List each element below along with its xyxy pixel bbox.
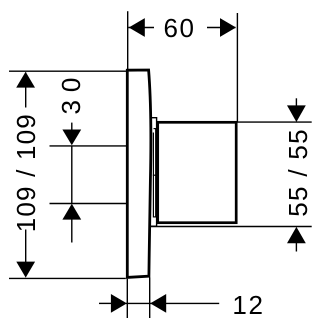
dimension line 60 (top) left segment <box>128 27 154 29</box>
extension line bottom vertical right (12 dim) <box>149 278 151 319</box>
arrow 12 left <box>111 294 127 313</box>
dimension line 12 left segment <box>99 302 112 304</box>
extension line lower (30 dim) <box>50 203 128 205</box>
arrow 55/55 top <box>287 105 306 122</box>
dimension line 55/55 upper stub <box>295 98 297 106</box>
dimension line 30 lower stub <box>71 219 73 243</box>
dimension line 60 (top) right segment <box>207 27 236 29</box>
sleeve mid bridge tick <box>153 174 156 176</box>
arrow 109/109 bottom <box>16 262 35 278</box>
sleeve step front line <box>155 129 157 217</box>
dimension line 30 middle segment <box>71 146 73 204</box>
sleeve outer cylinder <box>150 118 157 227</box>
dimension line 12 middle/right segment <box>126 302 219 304</box>
svg-text:12: 12 <box>232 290 264 320</box>
svg-text:60: 60 <box>163 13 195 43</box>
escutcheon plate (side view) <box>127 70 151 277</box>
extension line top-left (plate top, for 109/109 dim) <box>9 70 127 72</box>
extension line bottom vertical left (12 dim) <box>126 279 128 318</box>
dimension line 109/109 lower segment <box>25 230 27 277</box>
sleeve step lower tick <box>154 216 158 218</box>
arrow 109/109 top <box>16 72 35 88</box>
arrow 55/55 bottom <box>287 227 306 243</box>
arrow 30 lower <box>62 204 81 220</box>
extension line right vertical (60 dim, knob front) <box>236 13 238 122</box>
svg-text:109 / 109: 109 / 109 <box>11 113 41 232</box>
svg-text:55 / 55: 55 / 55 <box>283 128 313 217</box>
arrow 60 left <box>129 18 145 37</box>
arrow 30 upper <box>62 130 81 146</box>
extension line left vertical (60 dim, wall plane) <box>127 11 129 69</box>
extension line bottom-left (plate bottom, for 109/109 dim) <box>9 277 126 279</box>
sleeve step upper tick <box>154 128 158 130</box>
sleeve inner line (30mm stem) <box>152 133 154 218</box>
svg-text:30: 30 <box>56 70 86 115</box>
extension line lower-right (55/55 dim, sleeve bottom) <box>151 226 312 228</box>
dimension line 109/109 upper segment <box>25 73 27 108</box>
extension line upper-right (55/55 dim, knob top) <box>237 121 312 123</box>
dimension line 30 upper stub <box>71 123 73 131</box>
extension line upper (30 dim) <box>50 145 128 147</box>
handle knob (side view) <box>158 122 237 222</box>
dimension line 55/55 lower stub <box>295 243 297 252</box>
arrow 60 right <box>220 18 236 37</box>
arrow 12 right <box>150 294 166 313</box>
